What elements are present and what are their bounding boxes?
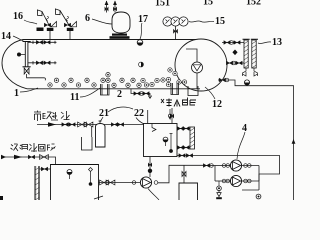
vent stem B valve (113, 7, 117, 12)
level gauge top cap (23, 41, 31, 43)
condensate return line (2, 157, 56, 165)
svg-text:12: 12 (212, 99, 222, 110)
callout dark single upper (139, 62, 144, 67)
safety valve C relief triangle (71, 22, 77, 27)
drain text annotation 接入排污 (161, 98, 196, 107)
dosing branch drop (91, 126, 93, 137)
leader for label 14 (13, 36, 24, 42)
HX drain gauge (244, 80, 249, 85)
feed open valve a (78, 122, 87, 127)
heat exchanger 13 tube B (252, 40, 256, 68)
pump 3 discharge union (154, 181, 158, 185)
dome mid line valve2 (236, 61, 242, 65)
svg-text:151: 151 (155, 0, 170, 9)
deaerator feed tank (179, 183, 198, 200)
dome internal downpipe (196, 73, 198, 89)
drain triangle and pad (217, 191, 221, 197)
safety valve assembly B stem (49, 31, 51, 40)
dome blowoff line lower (218, 80, 294, 200)
callout inside dome b (173, 71, 177, 75)
float ball (89, 182, 93, 186)
leader for label 15 (189, 21, 214, 22)
vent stem A valve (105, 7, 109, 12)
pump 4b branch (215, 180, 230, 182)
riser arrow on right line (292, 139, 296, 144)
svg-text:2: 2 (117, 89, 122, 100)
gauge line lower (28, 62, 57, 64)
svg-text:22: 22 (134, 108, 144, 119)
vessel 6 base flange (112, 34, 127, 36)
safety valve assembly C stem (69, 31, 71, 40)
level gauge drain pipe (27, 74, 46, 80)
leader for label 12 (205, 87, 215, 99)
tank 5 thermometer (67, 170, 72, 175)
dome top line union (230, 41, 234, 45)
dome outlet line mid (227, 62, 245, 64)
leader for label 21 (100, 117, 103, 122)
safety valve C body valve (64, 23, 70, 27)
tank 22 inlet stub with valve (171, 108, 173, 124)
tank 22 thermometer (163, 137, 168, 142)
outlet valve a (100, 180, 109, 185)
tank 22 bottom run to loop (177, 156, 280, 182)
drain line valve a (134, 92, 140, 96)
drain line union (140, 92, 144, 96)
instrument diamond between lines (232, 50, 237, 56)
tank 1 shell top line (23, 39, 196, 41)
level gauge drain valve (24, 68, 29, 74)
blowoff line union (225, 78, 229, 82)
sample cooler double bars (35, 166, 40, 200)
svg-text:21: 21 (99, 108, 109, 119)
dome top line valve 2 (234, 41, 240, 45)
vent stem A arrow (105, 1, 109, 6)
tank 1 right dome head (vessel 12 end) (175, 39, 227, 91)
suction union (132, 181, 136, 185)
sample cooler valve (41, 167, 47, 171)
dosing tank open top (82, 137, 93, 150)
leader for label 13 (258, 42, 271, 44)
tank 2 drain drop (131, 89, 150, 99)
arc leader over 21 (108, 107, 133, 112)
softener tank 21 (96, 124, 106, 148)
post-softener valve a (111, 123, 117, 127)
heat exchanger 13 tube A (244, 40, 248, 68)
level gauge tube on tank left (25, 42, 28, 67)
tank 5 outlet line to pump 3 (99, 182, 141, 184)
svg-text:15: 15 (215, 16, 225, 27)
condensate start arrowhead (1, 155, 6, 159)
stem gauge ball (148, 169, 152, 173)
feed black valve a (62, 123, 68, 127)
drop valve to deaerator tank (183, 165, 185, 183)
leader for label 22 (136, 118, 144, 125)
pump 4a branch (215, 165, 230, 167)
svg-text:17: 17 (138, 14, 148, 25)
pump 3 leader curve (148, 189, 159, 201)
leader for label 17 (140, 23, 142, 39)
outlet valve b (106, 180, 115, 185)
callout inside dome a (168, 68, 172, 72)
pump 4a discharge (242, 165, 259, 167)
stem valve (148, 163, 152, 168)
svg-text:11: 11 (70, 92, 79, 103)
tank 1 left dished head (2, 40, 27, 89)
safety valve B lever flag (37, 10, 49, 26)
tank 22 float switch (152, 124, 156, 132)
plate HX stub upper (177, 128, 190, 130)
discharge header (242, 166, 259, 191)
bottom run valve b (186, 154, 192, 158)
gauge line upper tick (32, 41, 34, 44)
suction union (210, 164, 214, 168)
blowdown riser to tank 22 (147, 110, 149, 124)
svg-text:4: 4 (242, 123, 247, 134)
funnel drain on tank bottom (171, 83, 179, 95)
tank 21 top knob (99, 121, 102, 124)
condensate black valve (28, 155, 34, 159)
text 冷凝水回收 (11, 143, 56, 152)
municipal feed line (37, 124, 144, 126)
vessel 6 vent stem A (106, 1, 108, 13)
safety valve C pad (67, 28, 74, 31)
pump 3 (140, 177, 151, 188)
safety valve B relief triangle (51, 22, 57, 27)
leader for label 11 (80, 88, 100, 97)
svg-text:6: 6 (85, 13, 90, 24)
gauge group stem valve (173, 29, 178, 34)
bottom run valve a (179, 154, 185, 158)
gauge line lower tick (32, 61, 34, 64)
vessel 6 base flange lower (110, 36, 130, 39)
condensate open valve (40, 155, 49, 160)
leader for label 1 (20, 88, 38, 92)
post-softener valve b (117, 123, 123, 127)
svg-text:1: 1 (14, 88, 19, 99)
svg-text:13: 13 (272, 37, 282, 48)
safety valve B body valve (44, 23, 50, 27)
svg-text:15: 15 (203, 0, 213, 8)
svg-text:14: 14 (1, 31, 11, 42)
pump 4b (230, 175, 241, 186)
seal pot under dome (188, 86, 198, 96)
suction valve (203, 164, 209, 168)
dome internal pump U12 (192, 62, 203, 73)
pump drain gauge stack (218, 181, 220, 186)
vessel 6 vent stem B (114, 1, 116, 13)
svg-text:152: 152 (246, 0, 261, 8)
tank 1 shell bottom line (27, 88, 200, 90)
gauge group 15 circle c (179, 17, 188, 26)
HX drain angle B (254, 68, 258, 76)
pumps 4 suction line (204, 165, 215, 167)
text 市政进水 (34, 111, 70, 122)
condensate flow arrow (14, 155, 22, 159)
leader for label 16 (24, 20, 37, 24)
blowoff line valve (219, 78, 225, 82)
pump 3 feed from tank22 stem (149, 157, 151, 178)
water tank 5 box (51, 165, 99, 201)
safety valve C lever flag (55, 9, 69, 26)
tank 22 level rod (170, 134, 172, 151)
gauge line upper valve pair (36, 40, 42, 44)
feed black valve b (69, 123, 75, 127)
plate HX stub lower (177, 147, 190, 149)
gauge group stem (175, 26, 177, 39)
feed open valve b (84, 122, 93, 127)
dome internal standpipe (186, 49, 197, 62)
manway pocket on tank bottom (101, 84, 110, 95)
gauge line lower end tick (54, 61, 56, 64)
HX top caps (243, 38, 259, 40)
safety valve B spring curl (47, 16, 49, 21)
gauge group 15 circle a (163, 17, 172, 26)
exhaust head vessel 6 (112, 12, 130, 33)
dome mid line union (232, 61, 236, 65)
instrument gauge lower right (256, 194, 261, 199)
drain arrow tip (148, 96, 152, 99)
callout circle row (48, 83, 52, 87)
dome outlet line top (222, 42, 244, 44)
svg-text:16: 16 (13, 11, 23, 22)
gauge 17 on tank top (137, 40, 143, 46)
level rod ball (169, 149, 173, 153)
plate HX bar (190, 127, 195, 149)
tank 5 outlet diagonal (94, 196, 103, 199)
drain loop symbol below text (169, 109, 172, 119)
gauge line lower valve pair (36, 61, 42, 65)
tank 22 shell (144, 124, 178, 157)
pump 4b discharge (242, 180, 259, 182)
safety valve B pad (47, 28, 54, 31)
gauge line upper (28, 41, 57, 43)
sample cooler connector (39, 168, 50, 170)
feed flow arrow (48, 122, 56, 126)
leader for label 4 (237, 132, 245, 159)
gauge group 15 circle b (171, 17, 180, 26)
HX drain angle A (243, 68, 247, 76)
gauge line upper end tick (54, 41, 56, 44)
left edge mark lower (0, 196, 3, 200)
vent stem B arrow (113, 1, 117, 6)
leader for label 6 (92, 19, 112, 24)
level gauge bottom cap (23, 66, 31, 68)
safety valve A pad on tank top (37, 28, 44, 32)
dome top line valve (224, 41, 230, 45)
drain line valve b (143, 92, 149, 96)
discharge run to riser (158, 165, 204, 183)
tank 5 level float rod (89, 168, 93, 184)
safety valve C spring curl (67, 16, 69, 21)
pump 4a (230, 160, 241, 171)
dome mid line valve (226, 61, 232, 65)
suction manifold (214, 166, 216, 182)
level gauge side dot (17, 53, 21, 57)
